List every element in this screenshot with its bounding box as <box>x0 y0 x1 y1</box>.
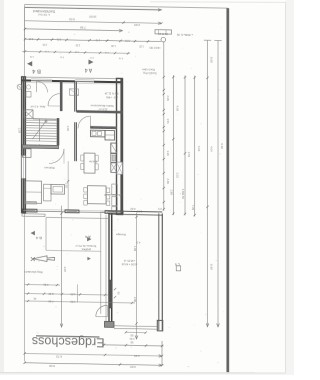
svg-text:8.00: 8.00 <box>69 17 75 21</box>
svg-text:Erdgeschoss: Erdgeschoss <box>32 334 105 349</box>
svg-text:80 R 10: 80 R 10 <box>158 32 168 36</box>
svg-text:1.52: 1.52 <box>70 300 76 304</box>
svg-text:1.51: 1.51 <box>166 118 170 124</box>
svg-text:2.29: 2.29 <box>17 128 21 134</box>
svg-text:Garage: Garage <box>116 233 126 237</box>
svg-text:6.03: 6.03 <box>197 146 201 152</box>
svg-text:2.89: 2.89 <box>169 189 173 195</box>
svg-text:ü. OK Gel.: ü. OK Gel. <box>38 13 51 17</box>
svg-text:4.04: 4.04 <box>210 146 214 152</box>
svg-text:2.62: 2.62 <box>130 207 136 211</box>
svg-text:10.00: 10.00 <box>89 15 97 19</box>
svg-text:2.39: 2.39 <box>166 178 170 184</box>
svg-text:Abst. 4,3 m²: Abst. 4,3 m² <box>31 105 46 109</box>
svg-text:2.02: 2.02 <box>176 172 180 178</box>
svg-text:90: 90 <box>130 334 134 338</box>
svg-text:BN N 31,34: BN N 31,34 <box>104 92 118 96</box>
svg-text:±0,00 = 48,05: ±0,00 = 48,05 <box>121 262 137 266</box>
svg-text:7.99: 7.99 <box>48 299 54 303</box>
svg-text:8.99: 8.99 <box>210 264 214 270</box>
svg-text:B 4: B 4 <box>36 236 42 240</box>
svg-text:2.00: 2.00 <box>134 23 140 27</box>
svg-text:WC-Dusche 3,9 m²: WC-Dusche 3,9 m² <box>93 125 116 129</box>
svg-text:32,6 m²: 32,6 m² <box>98 107 107 111</box>
svg-text:1.86: 1.86 <box>70 292 76 296</box>
svg-text:7.26: 7.26 <box>191 205 195 211</box>
svg-text:3.05: 3.05 <box>63 266 67 272</box>
svg-text:Weg überdacht: Weg überdacht <box>24 270 43 274</box>
svg-text:B 4: B 4 <box>31 67 40 73</box>
svg-text:1.50: 1.50 <box>42 43 47 45</box>
svg-text:(03 - +6N): (03 - +6N) <box>106 96 118 100</box>
svg-text:gepflast.: gepflast. <box>81 247 91 251</box>
svg-text:A 4: A 4 <box>85 66 92 72</box>
svg-text:3.00: 3.00 <box>130 365 136 369</box>
svg-text:+ 80R+0. W: + 80R+0. W <box>177 33 193 37</box>
svg-text:2.5: 2.5 <box>158 207 162 211</box>
svg-text:4.68: 4.68 <box>176 105 180 111</box>
svg-text:Küche: Küche <box>89 160 97 164</box>
svg-text:1.50: 1.50 <box>181 194 185 200</box>
svg-text:2.90: 2.90 <box>133 297 137 303</box>
svg-text:2.52: 2.52 <box>187 152 191 158</box>
svg-text:9.49: 9.49 <box>220 143 224 149</box>
svg-text:2.30: 2.30 <box>65 183 69 189</box>
svg-text:1.38: 1.38 <box>111 44 116 46</box>
svg-text:4.0: 4.0 <box>136 241 140 245</box>
svg-text:2.30: 2.30 <box>75 43 80 45</box>
svg-text:4.30: 4.30 <box>134 354 140 358</box>
svg-text:Wohnen: Wohnen <box>44 166 55 170</box>
svg-text:2.50: 2.50 <box>136 209 142 213</box>
svg-text:4.96: 4.96 <box>133 246 137 252</box>
svg-text:2.29: 2.29 <box>166 95 170 101</box>
svg-text:0.70: 0.70 <box>125 39 130 41</box>
svg-text:8.00: 8.00 <box>49 364 55 368</box>
svg-text:95: 95 <box>130 341 134 345</box>
svg-text:1.25: 1.25 <box>139 44 144 46</box>
svg-text:8.00: 8.00 <box>210 57 214 63</box>
svg-text:7.99: 7.99 <box>80 26 86 30</box>
svg-text:GarZG Prg: GarZG Prg <box>143 71 157 75</box>
svg-text:=48,0 HD: =48,0 HD <box>149 46 160 50</box>
svg-text:2.30: 2.30 <box>66 126 70 132</box>
svg-text:4.21: 4.21 <box>43 283 49 287</box>
svg-text:1.01: 1.01 <box>56 37 61 39</box>
svg-text:1.51: 1.51 <box>129 337 135 341</box>
svg-text:1.26: 1.26 <box>166 150 170 156</box>
svg-text:1.75: 1.75 <box>95 38 100 40</box>
svg-text:2.30: 2.30 <box>28 37 33 39</box>
svg-text:6.75: 6.75 <box>56 355 62 359</box>
svg-text:2.36: 2.36 <box>48 292 54 296</box>
